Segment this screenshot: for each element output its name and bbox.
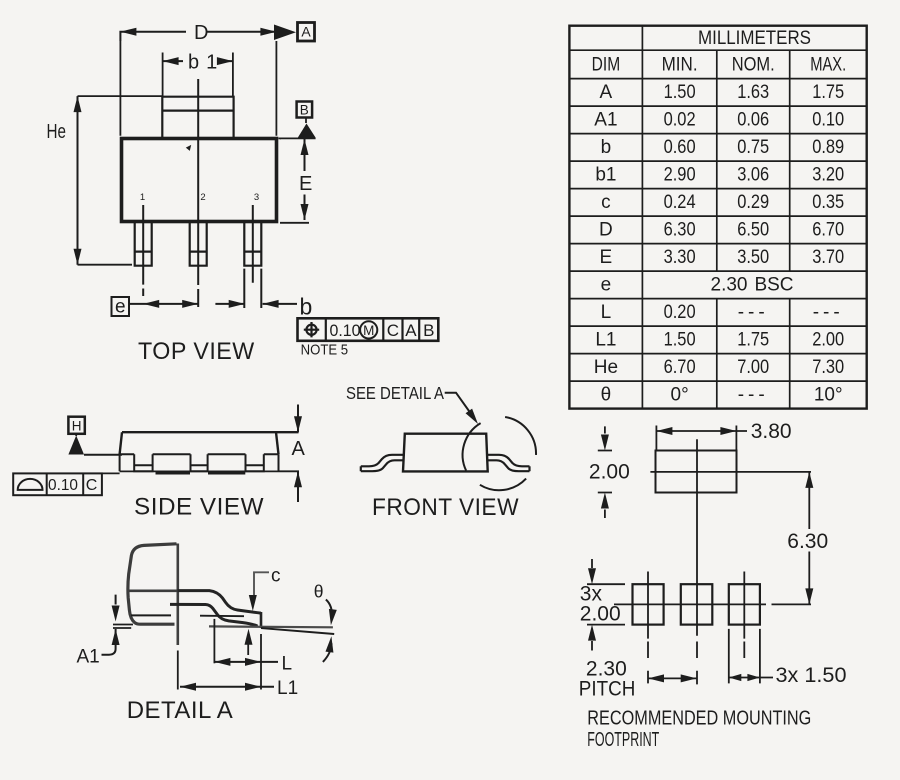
svg-text:PITCH: PITCH [579,678,636,701]
svg-text:3.70: 3.70 [812,247,844,268]
L dimension [214,619,278,666]
svg-text:3.30: 3.30 [664,247,696,268]
svg-text:L1: L1 [277,678,298,699]
svg-text:10°: 10° [814,385,843,406]
svg-text:2.00: 2.00 [580,603,621,626]
svg-text:A1: A1 [594,110,617,131]
svg-text:NOTE 5: NOTE 5 [301,342,349,359]
svg-text:6.70: 6.70 [812,220,844,241]
He dimension [74,96,163,265]
svg-text:1.75: 1.75 [812,82,844,103]
svg-text:TOP VIEW: TOP VIEW [138,338,255,365]
tab pad horizontal centerline [650,471,811,473]
table text [592,28,847,406]
svg-text:e: e [115,297,126,318]
right lead bottom edge [488,460,530,471]
svg-text:---: --- [738,385,769,406]
seating plane line right [209,625,333,628]
svg-text:b: b [601,137,612,158]
main vertical centerline [696,439,698,684]
svg-text:c: c [601,192,611,213]
body right edge [177,544,180,646]
seating plane line to FCF [102,471,299,473]
lead tip cap [260,612,263,628]
svg-text:L: L [282,654,293,675]
lead top edge [178,591,261,614]
lead 3 centerline [252,205,254,283]
circled M [360,321,377,338]
svg-text:B: B [423,321,434,340]
pads horizontal centerline [614,603,811,605]
L gauge line [200,615,244,618]
svg-text:0.29: 0.29 [737,192,769,213]
svg-text:E: E [299,173,312,195]
svg-text:1.50: 1.50 [664,330,696,351]
lead top inside body [130,589,178,592]
svg-text:6.30: 6.30 [664,220,696,241]
lead 1 centerline [142,205,144,296]
svg-text:0.02: 0.02 [664,110,696,131]
3.80 dimension [656,426,747,450]
svg-text:---: --- [738,302,769,323]
pad 1 centerline [647,572,649,684]
E dimension [280,138,309,222]
svg-text:0.24: 0.24 [664,192,696,213]
table outer border [569,26,866,409]
datum B triangle [298,124,316,138]
body top line with extension [122,431,299,433]
6.30 dimension [805,472,813,605]
svg-text:NOM.: NOM. [732,55,775,76]
svg-text:2: 2 [200,192,205,203]
svg-text:E: E [600,247,613,268]
svg-text:He: He [594,357,618,378]
right lead top edge [487,455,530,467]
A1 dimension [102,595,120,655]
svg-text:7.00: 7.00 [737,357,769,378]
datum B box [297,102,313,118]
svg-text:SIDE VIEW: SIDE VIEW [134,494,264,521]
svg-text:0.75: 0.75 [737,137,769,158]
body trapezoid [403,434,488,472]
end verticals [120,454,279,471]
svg-text:3.50: 3.50 [737,247,769,268]
svg-text:0.35: 0.35 [812,192,844,213]
tab pad [656,451,737,493]
b1 dimension [163,53,233,97]
lead pad 1 [633,584,664,624]
svg-text:---: --- [813,302,844,323]
detail circle arc bottom [480,479,526,491]
svg-text:0.60: 0.60 [664,137,696,158]
svg-text:2.00: 2.00 [589,461,630,484]
datum H triangle [68,436,84,455]
e dimension [129,300,198,308]
center line [197,79,199,307]
svg-text:1.50: 1.50 [664,82,696,103]
b dimension [215,300,297,308]
svg-text:A: A [405,321,417,340]
2.30 pitch dimension [648,674,697,682]
body right slant [276,432,279,454]
body bottom tick 1 [113,624,133,626]
svg-text:H: H [72,418,82,433]
svg-text:θ: θ [601,385,612,406]
svg-text:0°: 0° [671,385,689,406]
svg-text:3.20: 3.20 [812,165,844,186]
svg-text:D: D [194,22,208,44]
lead 1 [135,222,152,266]
flatness FCF [13,473,102,495]
theta sloped line [261,628,334,634]
L1 left extension line [177,651,179,690]
e boxed label [112,297,130,316]
svg-text:6.70: 6.70 [664,357,696,378]
body bottom segments [120,453,279,455]
svg-text:1: 1 [140,192,145,203]
body left slant [120,432,122,454]
svg-text:C: C [387,321,399,340]
profile of surface symbol [18,479,43,490]
svg-text:D: D [599,220,613,241]
svg-text:FOOTPRINT: FOOTPRINT [587,729,659,751]
lead pad 2 [681,584,713,624]
line inside body [131,614,171,616]
b extension lines [244,269,261,308]
svg-text:C: C [86,477,98,494]
right lead end cap [528,466,530,471]
datum A box [298,23,315,42]
svg-text:θ: θ [314,582,324,602]
svg-text:FRONT VIEW: FRONT VIEW [372,494,519,521]
svg-text:He: He [47,121,67,143]
svg-text:A: A [600,82,613,103]
datum A arrow [274,25,296,41]
D dimension [120,28,276,136]
svg-text:c: c [271,566,281,587]
left lead bottom edge [361,460,403,471]
svg-text:6.50: 6.50 [737,220,769,241]
svg-text:A1: A1 [77,647,100,668]
A dimension [294,405,302,503]
table column lines [641,26,643,409]
detail circle arc top right [505,417,536,455]
svg-text:1.75: 1.75 [737,330,769,351]
lead pad 3 [729,584,760,624]
c dimension leader [245,572,270,655]
svg-text:2.90: 2.90 [664,165,696,186]
position symbol [306,325,316,335]
svg-text:3.80: 3.80 [751,420,792,443]
svg-text:1.63: 1.63 [737,82,769,103]
lead 2 [190,222,207,266]
svg-text:BSC: BSC [754,275,793,296]
pad 3 centerline [743,572,745,659]
feature control frame [298,318,439,341]
tab inner line [162,109,233,111]
tab outline [162,97,233,138]
svg-text:RECOMMENDED MOUNTING: RECOMMENDED MOUNTING [587,708,811,730]
seating tick 2 [113,627,131,629]
svg-text:M: M [363,323,374,338]
pin1 marker [186,145,191,151]
svg-text:b1: b1 [595,165,616,186]
lead bottom edge [170,604,258,626]
svg-text:MAX.: MAX. [810,55,846,76]
svg-text:0.20: 0.20 [664,302,696,323]
lead 3 [244,222,261,266]
svg-text:0.10: 0.10 [812,110,844,131]
svg-text:3x 1.50: 3x 1.50 [776,664,847,687]
body outline [128,544,177,624]
svg-text:L: L [601,302,612,323]
table row lines [569,50,866,381]
svg-text:0.89: 0.89 [812,137,844,158]
svg-text:7.30: 7.30 [812,357,844,378]
thick bottom segments between leads [120,470,279,472]
svg-text:b: b [300,294,313,320]
side lead 2 [191,454,208,471]
svg-text:SEE DETAIL A: SEE DETAIL A [346,383,444,403]
svg-text:DIM: DIM [592,55,621,76]
svg-text:0.10: 0.10 [330,321,361,340]
svg-text:2.00: 2.00 [812,330,844,351]
3x 2.00 dimension [587,559,625,651]
left lead end cap [360,466,362,471]
package body [122,139,277,222]
2.00 dimension (tab) [598,426,612,518]
svg-text:0.06: 0.06 [737,110,769,131]
side lead 1 [134,454,152,471]
svg-text:MIN.: MIN. [662,55,698,76]
L1 dimension [180,634,274,691]
svg-text:DETAIL A: DETAIL A [127,697,234,724]
svg-text:0.10: 0.10 [48,477,78,494]
svg-text:3: 3 [254,192,259,203]
detail circle arc left through body [463,423,481,471]
datum H box [68,417,84,434]
svg-text:MILLIMETERS: MILLIMETERS [698,28,811,49]
left lead top edge [361,455,405,467]
theta dimension arcs [323,600,337,662]
svg-text:e: e [601,275,612,296]
side lead 3 [246,454,264,471]
svg-text:6.30: 6.30 [787,530,828,553]
3x 1.50 dimension [729,629,773,684]
svg-text:A: A [301,24,311,40]
svg-text:A: A [292,438,306,460]
svg-text:2.30: 2.30 [711,275,748,296]
svg-text:B: B [300,102,309,117]
svg-text:3.06: 3.06 [737,165,769,186]
svg-text:L1: L1 [595,330,616,351]
seating plane line left [84,454,122,456]
